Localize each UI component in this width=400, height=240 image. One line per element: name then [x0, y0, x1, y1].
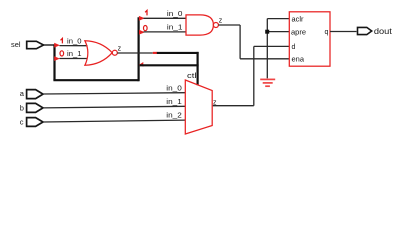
- wire NAND in_0: [144, 17, 187, 19]
- bus ctl vertical to mux: [197, 52, 199, 85]
- svg-text:in_1: in_1: [67, 51, 82, 58]
- svg-text:ena: ena: [292, 56, 305, 63]
- or-gate NOR U1: [85, 41, 117, 66]
- mux U3: [185, 80, 212, 134]
- bus tap arrow sel bit0 to NAND in_1: [139, 30, 145, 35]
- input pin a: [20, 89, 43, 99]
- wire sel bus left vertical: [53, 44, 55, 80]
- svg-text:z: z: [118, 46, 122, 53]
- flip-flop U4: [289, 12, 330, 66]
- wire apre horizontal: [267, 31, 289, 33]
- bus ctl upper segment: [157, 52, 199, 54]
- ground: [260, 79, 275, 86]
- wire d horizontal: [254, 45, 289, 47]
- svg-text:z: z: [219, 17, 223, 24]
- bus tap arrow sel bit1 to NAND in_0: [139, 16, 145, 21]
- input pin sel: [11, 40, 44, 49]
- svg-text:q: q: [325, 29, 329, 36]
- wire mux z vertical up: [253, 46, 255, 105]
- label bit index 1 (NAND in_0): [145, 10, 147, 15]
- svg-text:ctl: ctl: [187, 73, 197, 80]
- label bit index 1 (NOR in_0): [61, 38, 63, 43]
- wire NOR z thin: [117, 52, 153, 54]
- bus tap arrow sel bit0 to NOR in_1: [54, 56, 60, 61]
- input pin b: [20, 103, 43, 112]
- wire NOR in_0: [60, 45, 88, 47]
- wire NAND in_1: [144, 31, 187, 33]
- wire q to dout: [330, 31, 357, 33]
- wire mux z horizontal: [213, 105, 254, 107]
- wire NAND z vertical down: [239, 25, 241, 59]
- svg-text:apre: apre: [291, 29, 306, 36]
- wire ena horizontal: [240, 58, 289, 60]
- junction apre: [265, 30, 269, 34]
- svg-text:b: b: [20, 103, 24, 112]
- bus tap arrow to ctl: [139, 62, 143, 67]
- svg-text:c: c: [20, 117, 24, 126]
- wire sel bus bottom horizontal: [53, 79, 138, 81]
- and-gate NAND U2: [186, 15, 218, 35]
- label bit index 0 (NAND in_1): [144, 26, 148, 31]
- input pin c: [20, 117, 43, 126]
- wire c to mux in_2: [43, 120, 185, 122]
- svg-text:dout: dout: [374, 27, 393, 36]
- label bit index 0 (NOR in_1): [60, 51, 64, 56]
- svg-text:in_1: in_1: [166, 99, 182, 106]
- svg-text:sel: sel: [11, 40, 21, 49]
- wire gnd vertical: [266, 19, 268, 79]
- bus tap arrow sel bit1 to NOR in_0: [54, 43, 60, 48]
- output pin dout: [358, 27, 393, 36]
- svg-text:in_1: in_1: [167, 25, 183, 32]
- svg-text:d: d: [292, 44, 296, 51]
- bus ctl lower segment: [140, 64, 199, 66]
- wire a to mux in_0: [43, 93, 185, 94]
- wire aclr horizontal: [267, 18, 289, 20]
- svg-text:in_2: in_2: [166, 113, 182, 120]
- svg-text:aclr: aclr: [292, 16, 305, 23]
- wire NAND z horizontal: [218, 24, 240, 26]
- wire sel bus right vertical: [138, 17, 140, 81]
- wire sel pin to bus node: [44, 44, 55, 46]
- svg-text:in_0: in_0: [167, 11, 183, 18]
- svg-text:in_0: in_0: [67, 39, 82, 46]
- wire b to mux in_1: [43, 106, 185, 108]
- bus ripper mark NOR z: [153, 52, 157, 54]
- svg-text:in_0: in_0: [166, 85, 182, 92]
- wire NOR in_1: [60, 58, 88, 60]
